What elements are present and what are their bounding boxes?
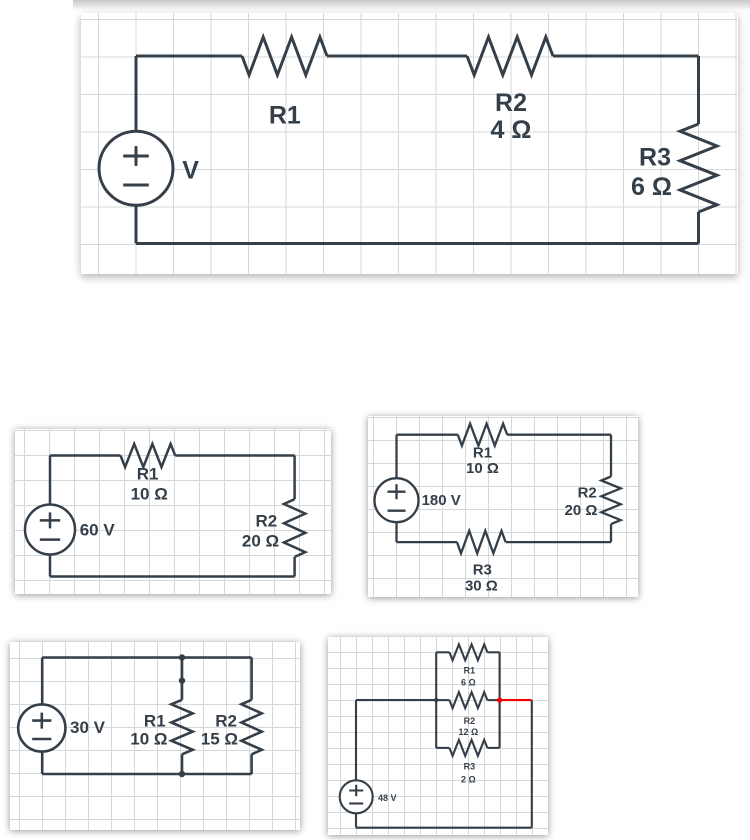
resistor R1 zigzag — [171, 699, 192, 754]
svg-text:4 Ω: 4 Ω — [491, 116, 532, 144]
minus sign — [32, 737, 51, 740]
svg-text:R1: R1 — [144, 711, 166, 730]
svg-text:R2: R2 — [463, 715, 475, 725]
resistor R1 zigzag — [121, 444, 176, 467]
wire right vertical — [530, 700, 532, 828]
svg-text:R2: R2 — [577, 484, 596, 501]
wire bottom-left vertical — [41, 751, 44, 773]
resistor R2 zigzag — [601, 476, 620, 524]
wire top rail left segment — [396, 433, 457, 435]
wire R1 rail left — [436, 651, 449, 653]
svg-text:R2: R2 — [495, 89, 527, 117]
resistor R3 zigzag — [457, 530, 506, 553]
junction dot red node — [497, 697, 502, 702]
wire top-left vertical — [135, 56, 138, 131]
voltage source V — [99, 131, 173, 205]
wire left vertical upper — [355, 700, 357, 780]
wire top-left vertical — [49, 456, 52, 505]
wire top rail right segment — [175, 455, 294, 458]
circuit panel 2 — [15, 429, 331, 594]
minus sign — [123, 183, 149, 186]
svg-text:2 Ω: 2 Ω — [461, 774, 476, 784]
wire R3 rail left — [436, 746, 449, 748]
svg-text:10 Ω: 10 Ω — [130, 729, 167, 748]
resistor R2 zigzag — [241, 699, 261, 754]
wire top-left vertical — [395, 434, 397, 478]
resistor R2 zigzag — [449, 692, 487, 708]
svg-text:R1: R1 — [269, 101, 301, 129]
wire bottom rail — [136, 242, 699, 245]
wire left vertical lower — [355, 813, 357, 827]
wire bottom-left vertical — [49, 554, 52, 576]
voltage source 180V — [374, 478, 418, 522]
minus sign — [40, 539, 60, 542]
circuit panel 3 — [368, 416, 639, 598]
top cropped shadow band — [73, 0, 750, 11]
junction dot top — [179, 654, 185, 660]
wire bottom rail — [42, 772, 251, 775]
wire right vertical upper — [609, 434, 611, 476]
junction dot node — [179, 677, 185, 683]
circuit panel 4 — [10, 642, 300, 831]
resistor R1 zigzag — [457, 423, 506, 445]
wire right vertical lower — [293, 557, 296, 577]
wire bottom rail right segment — [505, 541, 610, 543]
circuit panel 1 — [81, 13, 738, 275]
circuit panel 5 — [328, 637, 548, 835]
svg-text:10 Ω: 10 Ω — [131, 485, 168, 504]
wire R2 rail left — [436, 699, 449, 701]
svg-text:R3: R3 — [639, 143, 671, 171]
plus sign — [32, 712, 51, 728]
wire main horizontal from source — [356, 699, 436, 701]
voltage source 30V — [18, 704, 65, 751]
plus sign — [40, 513, 60, 529]
voltage source 60V — [25, 505, 75, 555]
svg-text:15 Ω: 15 Ω — [201, 729, 238, 748]
wire left bus vertical — [435, 652, 437, 748]
svg-text:R3: R3 — [463, 761, 475, 771]
wire top-left vertical — [41, 657, 44, 704]
resistor R3 zigzag — [449, 739, 487, 755]
voltage source 48V — [339, 780, 372, 813]
svg-text:12 Ω: 12 Ω — [458, 727, 478, 737]
wire bottom rail — [50, 576, 295, 579]
svg-text:20 Ω: 20 Ω — [242, 532, 279, 551]
svg-text:R1: R1 — [137, 465, 159, 484]
wire R1 branch lower — [181, 754, 184, 774]
svg-text:60 V: 60 V — [80, 521, 116, 540]
svg-text:30 Ω: 30 Ω — [464, 577, 497, 594]
wire right vertical lower — [609, 524, 611, 542]
svg-text:V: V — [182, 156, 199, 184]
svg-text:R1: R1 — [463, 665, 475, 675]
minus sign — [349, 802, 363, 804]
wire top rail middle segment — [327, 54, 467, 57]
wire top rail left segment — [136, 54, 242, 57]
svg-text:180 V: 180 V — [421, 491, 460, 508]
minus sign — [387, 509, 405, 511]
wire bottom rail — [356, 826, 532, 828]
svg-text:6 Ω: 6 Ω — [631, 173, 672, 201]
wire bottom rail left segment — [396, 541, 457, 543]
wire top rail left segment — [50, 455, 121, 458]
junction dot bottom — [179, 770, 185, 776]
resistor R1 zigzag — [242, 37, 327, 75]
wire top rail right segment — [507, 433, 611, 435]
wire top rail — [42, 656, 251, 659]
svg-text:R2: R2 — [215, 711, 237, 730]
junction dot node A — [434, 697, 438, 701]
svg-text:6 Ω: 6 Ω — [461, 677, 476, 687]
wire right bus vertical — [498, 652, 500, 748]
svg-text:R3: R3 — [472, 561, 491, 578]
wire red segment — [499, 699, 531, 701]
resistor R2 zigzag — [467, 37, 553, 75]
wire bottom-left vertical — [135, 205, 138, 243]
wire right vertical upper — [697, 56, 700, 124]
wire bottom-left vertical — [395, 522, 397, 542]
wire R2 rail right — [487, 699, 499, 701]
wire R1 rail right — [487, 651, 499, 653]
svg-text:R2: R2 — [256, 512, 278, 531]
plus sign — [349, 784, 363, 796]
resistor R2 zigzag — [284, 499, 305, 557]
wire R3 rail right — [487, 746, 499, 748]
wire right vertical lower — [697, 212, 700, 244]
wire top rail right segment — [553, 54, 699, 57]
svg-text:30 V: 30 V — [70, 717, 106, 736]
plus sign — [387, 484, 405, 499]
wire R2 branch upper — [250, 657, 253, 699]
svg-text:10 Ω: 10 Ω — [466, 459, 499, 476]
plus sign — [123, 146, 149, 166]
svg-text:R1: R1 — [472, 444, 491, 461]
svg-text:48 V: 48 V — [378, 792, 396, 802]
svg-text:20 Ω: 20 Ω — [564, 502, 597, 519]
resistor R3 zigzag — [680, 124, 717, 212]
wire R1 branch upper — [181, 657, 184, 699]
wire R2 branch lower — [250, 754, 253, 774]
wire right vertical upper — [293, 456, 296, 500]
resistor R1 zigzag — [449, 644, 487, 660]
